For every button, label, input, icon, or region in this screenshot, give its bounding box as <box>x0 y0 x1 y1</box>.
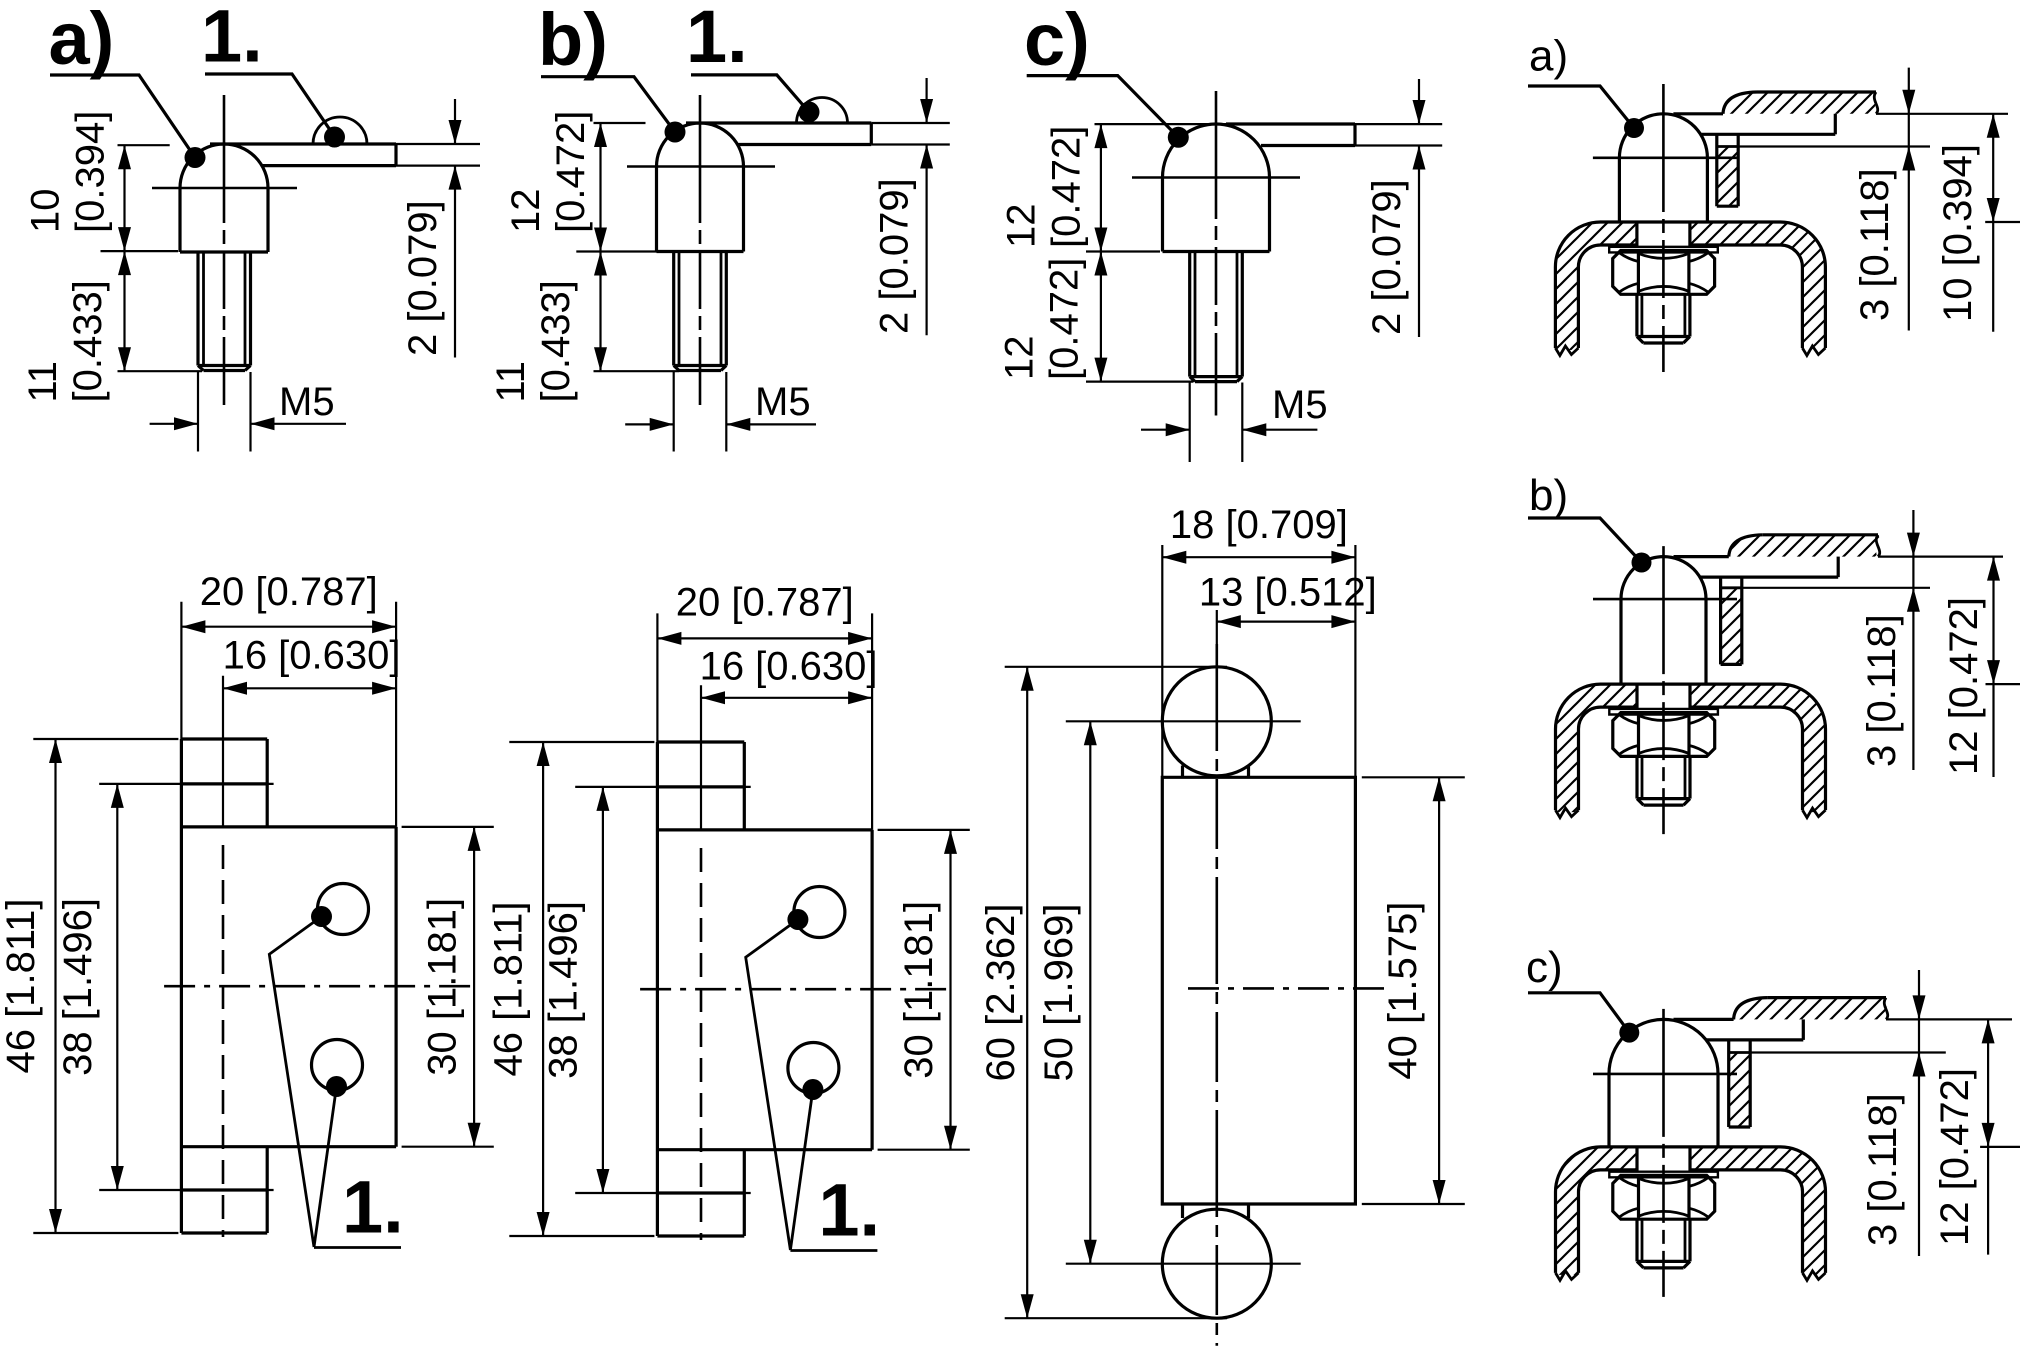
ball horizontal centerline (section a)) <box>1593 157 1737 160</box>
arm collar skirt section (section c)) <box>1729 1053 1751 1128</box>
view b) leader line <box>541 77 675 132</box>
washer (section c)) <box>1609 1172 1718 1178</box>
ball stud shoulder (view b) <box>657 250 744 253</box>
hex nut M5 (section c)) <box>1613 1175 1715 1219</box>
ball stud dome (view c) <box>1163 124 1270 252</box>
dimension 16 [0.630] <box>223 687 396 689</box>
weld spot leader dots <box>787 909 808 930</box>
svg-text:30 [1.181]: 30 [1.181] <box>421 898 465 1076</box>
mating sheet with collar (section a)) <box>1723 92 1878 114</box>
arm collar skirt section (section a)) <box>1717 147 1738 207</box>
hex nut M5 (section b)) <box>1613 713 1715 757</box>
view a) leader dot <box>185 147 206 168</box>
svg-text:M5: M5 <box>755 380 811 424</box>
horizontal centerline (plate c) <box>1188 987 1388 990</box>
counter plate arm (section a)) <box>1673 112 1723 115</box>
dimension 50 [1.969] <box>1066 720 1301 722</box>
svg-text:13 [0.512]: 13 [0.512] <box>1199 571 1377 615</box>
stud end below nut (section c)) <box>1635 1219 1638 1261</box>
vertical centerline (section a)) <box>1662 84 1665 372</box>
item 1. leader line (view b) <box>691 75 809 112</box>
svg-text:1.: 1. <box>818 1169 880 1252</box>
ball stud dome (view b) <box>657 123 744 251</box>
svg-text:2 [0.079]: 2 [0.079] <box>401 200 445 356</box>
weld spot leader dots <box>311 906 332 927</box>
view c) leader line <box>1027 76 1179 138</box>
vertical centerline (section b)) <box>1662 546 1665 834</box>
item 1. leader dot (view b) <box>799 102 820 123</box>
vertical centerline (section c)) <box>1662 1009 1665 1297</box>
dimension 60 [2.362] <box>1005 666 1227 668</box>
ball bottom (plate c) <box>1162 1209 1271 1318</box>
vertical centerline (plate c) <box>1216 644 1219 1346</box>
svg-text:20 [0.787]: 20 [0.787] <box>200 570 378 614</box>
svg-text:b): b) <box>538 0 608 81</box>
ball horizontal centerline (section b)) <box>1593 598 1737 601</box>
dimension M5 (view b) <box>673 372 675 452</box>
svg-text:M5: M5 <box>1272 383 1328 427</box>
ball stud dome (section b)) <box>1621 557 1706 685</box>
dimension 30 [1.181] <box>878 829 970 831</box>
fold line (solid ext + hidden dashes) <box>222 676 224 827</box>
svg-text:50 [1.969]: 50 [1.969] <box>1037 904 1081 1082</box>
dimension 30 [1.181] <box>402 826 494 828</box>
dimension 40 [1.575] <box>1362 776 1465 778</box>
channel bracket cross-section (section b)) <box>1555 684 1637 812</box>
item 1. leader dot (view a) <box>324 127 345 148</box>
dimension 16 [0.630] <box>701 697 872 699</box>
hinge plate c) outline <box>1162 777 1355 1204</box>
dimension M5 (view a) <box>197 372 199 452</box>
threaded stud M5 (view c) <box>1188 252 1191 377</box>
svg-text:3 [0.118]: 3 [0.118] <box>1861 1093 1905 1246</box>
plate horizontal centerline <box>640 988 948 991</box>
view b) leader dot <box>665 122 686 143</box>
svg-text:18 [0.709]: 18 [0.709] <box>1170 503 1348 547</box>
ball stud dome (section a)) <box>1619 114 1707 222</box>
svg-text:60 [2.362]: 60 [2.362] <box>979 904 1023 1082</box>
dimension 46 [1.811] <box>33 738 178 740</box>
svg-text:a): a) <box>49 0 115 80</box>
svg-text:40 [1.575]: 40 [1.575] <box>1381 902 1425 1080</box>
stud through plate (section c)) <box>1635 1147 1638 1172</box>
counter plate arm (view c) <box>1226 122 1355 125</box>
svg-text:c): c) <box>1024 0 1090 81</box>
fold line (solid ext + hidden dashes) <box>700 685 702 830</box>
view c) leader dot <box>1168 127 1189 148</box>
weld bead arc (view a) <box>313 117 367 144</box>
ball stud shoulder (view a) <box>180 250 268 253</box>
stud end below nut (section b)) <box>1635 756 1638 798</box>
dimension 2 [0.079] (view a) <box>396 143 480 145</box>
section c) leader line <box>1528 993 1629 1033</box>
weld spot circle lower <box>312 1040 363 1091</box>
section c) leader dot <box>1619 1023 1639 1043</box>
dimension 2 [0.079] (view c) <box>1355 144 1442 146</box>
ball stud shoulder (view c) <box>1163 250 1270 253</box>
svg-text:1.: 1. <box>201 0 263 78</box>
svg-text:a): a) <box>1529 32 1568 81</box>
svg-text:2 [0.079]: 2 [0.079] <box>873 178 917 334</box>
dimension 2 [0.079] (view b) <box>871 122 950 124</box>
counter plate arm (view b) <box>686 121 871 124</box>
mating sheet with collar (section c)) <box>1734 998 1888 1020</box>
view a) leader line <box>50 75 195 158</box>
counter plate arm (section b)) <box>1674 555 1729 558</box>
ball stud dome (view a) <box>180 144 268 252</box>
stud end below nut (section a)) <box>1635 294 1638 336</box>
section a) leader line <box>1528 86 1634 128</box>
svg-text:c): c) <box>1526 943 1563 992</box>
item 1. leader line (view a) <box>205 74 335 137</box>
washer (section a)) <box>1609 247 1718 253</box>
weld spot circle upper <box>794 887 845 938</box>
section b) leader line <box>1528 518 1642 563</box>
svg-text:20 [0.787]: 20 [0.787] <box>676 580 854 624</box>
ball horizontal centerline (view c) <box>1132 176 1300 179</box>
counter plate arm (section c)) <box>1674 1018 1734 1021</box>
threaded stud M5 (view b) <box>672 252 675 366</box>
ball neck lines bottom (plate c) <box>1181 1204 1184 1218</box>
svg-text:3 [0.118]: 3 [0.118] <box>1853 168 1897 321</box>
vertical centerline (view a) <box>223 95 226 405</box>
hex nut M5 (section a)) <box>1613 251 1715 295</box>
dimension M5 (view c) <box>1189 383 1191 463</box>
ball stud dome (section c)) <box>1609 1019 1718 1147</box>
channel bracket cross-section (section c)) <box>1555 1147 1637 1275</box>
svg-text:12 [0.472]: 12 [0.472] <box>1933 1068 1977 1246</box>
weld spot circle upper <box>318 884 369 935</box>
channel break lines (section b)) <box>1556 808 1579 818</box>
dimension 38 [1.496] <box>575 786 751 788</box>
dimension 12 [0.472] x2 (view c) <box>1095 123 1443 125</box>
svg-text:46 [1.811]: 46 [1.811] <box>0 899 43 1074</box>
dimension 18 [0.709] <box>1161 545 1163 777</box>
channel bracket cross-section (section a)) <box>1555 222 1637 350</box>
ball horizontal centerline (section c)) <box>1593 1073 1737 1076</box>
svg-text:b): b) <box>1529 471 1568 520</box>
mounting plate outline (front view) <box>656 742 659 1236</box>
dimension 10 (section a)) <box>1992 114 1994 332</box>
dimension 3 [0.118] (section c)) <box>1918 970 1920 1256</box>
weld bead arc (view b) <box>797 98 848 123</box>
dimension 20 [0.787] <box>180 602 182 739</box>
plate horizontal centerline <box>164 985 472 988</box>
item 1. leader lines (plate) <box>746 920 798 1251</box>
ball top (plate c) <box>1162 667 1271 776</box>
svg-text:38 [1.496]: 38 [1.496] <box>542 901 586 1079</box>
svg-text:2 [0.079]: 2 [0.079] <box>1365 179 1409 335</box>
svg-text:16 [0.630]: 16 [0.630] <box>223 634 401 678</box>
svg-text:1.: 1. <box>686 0 748 78</box>
mounting plate outline (front view) <box>180 739 183 1233</box>
ball horizontal centerline (view b) <box>627 165 775 168</box>
dimension 13 [0.512] <box>1216 610 1218 660</box>
dimension 12 [0.472] / 11 [0.433] (view b) <box>594 122 646 124</box>
stud through plate (section b)) <box>1635 684 1638 709</box>
counter plate arm (view a) <box>210 142 396 145</box>
svg-text:3 [0.118]: 3 [0.118] <box>1860 614 1904 767</box>
vertical centerline (view c) <box>1215 91 1218 416</box>
channel break lines (section a)) <box>1555 346 1578 356</box>
dimension 20 [0.787] <box>656 613 658 742</box>
weld spot circle lower <box>788 1043 839 1094</box>
dimension 12 (section c)) <box>1987 1019 1989 1254</box>
svg-text:38 [1.496]: 38 [1.496] <box>56 898 100 1076</box>
ball horizontal centerline (view a) <box>152 187 297 190</box>
dimension 12 (section b)) <box>1992 557 1994 777</box>
dimension 3 [0.118] (section a)) <box>1908 68 1910 331</box>
svg-text:46 [1.811]: 46 [1.811] <box>487 902 531 1077</box>
svg-text:10 [0.394]: 10 [0.394] <box>1936 144 1980 322</box>
dimension 38 [1.496] <box>99 783 273 785</box>
vertical centerline (view b) <box>699 95 702 405</box>
dimension 46 [1.811] <box>509 741 654 743</box>
svg-text:30 [1.181]: 30 [1.181] <box>897 901 941 1079</box>
svg-text:1.: 1. <box>342 1166 404 1249</box>
mating sheet with collar (section b)) <box>1729 535 1880 557</box>
channel break lines (section c)) <box>1556 1271 1579 1281</box>
stud through plate (section a)) <box>1635 222 1638 247</box>
section a) leader dot <box>1624 118 1644 138</box>
arm collar skirt section (section b)) <box>1721 588 1742 665</box>
section b) leader dot <box>1632 553 1652 573</box>
svg-text:M5: M5 <box>279 380 335 424</box>
dimension 10 [0.394] / 11 [0.433] (view a) <box>118 144 170 146</box>
svg-text:12 [0.472]: 12 [0.472] <box>1942 597 1986 775</box>
svg-text:16 [0.630]: 16 [0.630] <box>700 645 878 689</box>
washer (section b)) <box>1609 709 1718 715</box>
dimension 3 [0.118] (section b)) <box>1912 510 1914 770</box>
threaded stud M5 (view a) <box>196 252 199 366</box>
item 1. leader lines (plate) <box>269 917 321 1248</box>
ball neck lines top (plate c) <box>1181 766 1184 778</box>
